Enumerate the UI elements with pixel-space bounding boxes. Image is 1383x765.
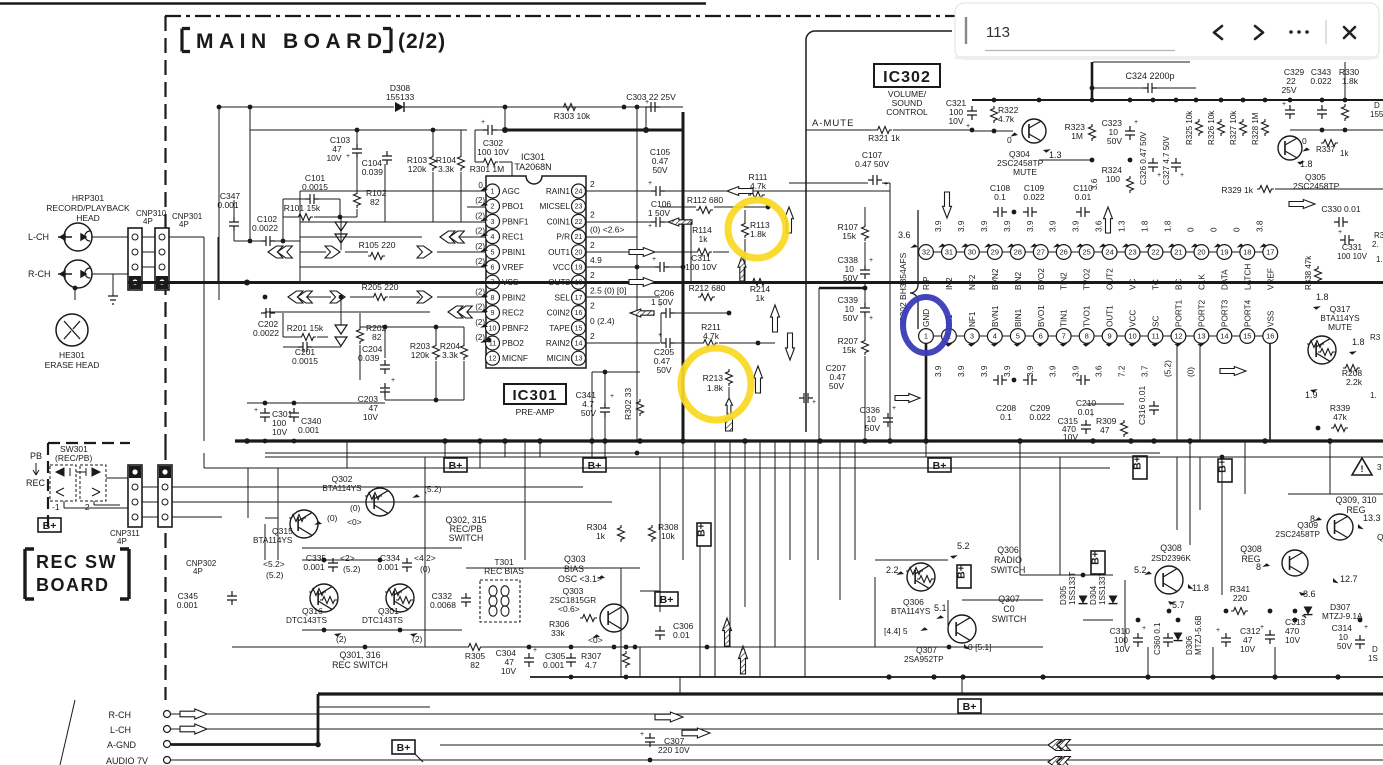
svg-text:220 10V: 220 10V [658, 745, 690, 755]
svg-text:24: 24 [1105, 248, 1113, 257]
svg-text:1.8: 1.8 [1300, 159, 1313, 169]
svg-text:10V: 10V [363, 412, 378, 422]
svg-text:3.6: 3.6 [1095, 220, 1104, 232]
capacitor C338 10 50V [838, 255, 873, 283]
arrow right bottom center 2 [682, 728, 710, 738]
svg-text:120k: 120k [408, 164, 427, 174]
wire thick rail into IC302 bus [505, 129, 683, 132]
wire IC302 top row link [979, 251, 987, 253]
svg-text:3.3k: 3.3k [438, 164, 455, 174]
diode D307 MTZJ-9.1A zener [1302, 602, 1363, 621]
capacitor C315 470 10V [1058, 412, 1094, 442]
svg-text:R329 1k: R329 1k [1221, 185, 1253, 195]
pin 15 IC302 PORT4 [1240, 299, 1255, 343]
svg-text:6: 6 [1039, 332, 1043, 341]
arrow up hatched 1 [723, 618, 732, 646]
transistor Q307 2SA952TP C0 SWITCH [884, 594, 1026, 664]
svg-text:4.7: 4.7 [585, 660, 597, 670]
svg-text:Q316: Q316 [302, 606, 323, 616]
svg-text:3: 3 [1377, 463, 1382, 472]
diode D304 1SS133T [1089, 572, 1118, 605]
capacitor C313 470 10V [1260, 617, 1306, 645]
svg-text:MTZJ-5.6B: MTZJ-5.6B [1194, 615, 1203, 655]
wires C304/C305/R307 [528, 647, 530, 653]
svg-text:155133: 155133 [386, 92, 415, 102]
svg-text:82: 82 [372, 332, 382, 342]
svg-text:AUDIO 7V: AUDIO 7V [106, 756, 148, 765]
svg-text:SC: SC [1152, 316, 1161, 327]
svg-text:R205 220: R205 220 [362, 282, 399, 292]
small arrow R213 bottom [726, 398, 733, 414]
svg-text:2.: 2. [1372, 240, 1379, 249]
svg-text:R213: R213 [703, 373, 724, 383]
pin 4 IC302 BVN1 [980, 305, 1002, 377]
wire IC302 top row link [1117, 251, 1125, 253]
svg-text:0.0022: 0.0022 [252, 223, 278, 233]
svg-text:R328 1M: R328 1M [1251, 112, 1260, 145]
svg-text:Q315: Q315 [272, 526, 293, 536]
svg-text:IN2: IN2 [945, 277, 954, 290]
capacitor C203 47 10V [358, 377, 395, 422]
svg-text:D305: D305 [1059, 585, 1068, 605]
svg-text:VREF: VREF [1266, 268, 1275, 290]
svg-text:BVN2: BVN2 [991, 268, 1000, 290]
capacitor C108 0.1 [990, 183, 1011, 217]
svg-text:1.: 1. [1376, 255, 1383, 264]
svg-text:14: 14 [575, 341, 583, 348]
pin 21 IC301 P/R [556, 230, 585, 244]
svg-text:26: 26 [1060, 248, 1068, 257]
svg-text:DTC143TS: DTC143TS [286, 616, 327, 625]
svg-text:A-MUTE: A-MUTE [812, 118, 854, 129]
svg-text:2: 2 [590, 331, 595, 341]
svg-text:B+: B+ [963, 701, 977, 713]
svg-text:1.9: 1.9 [1305, 390, 1318, 400]
svg-text:4: 4 [491, 234, 495, 241]
resistor R323 1M [1065, 122, 1096, 141]
svg-text:R325 10k: R325 10k [1185, 110, 1194, 145]
svg-text:50V: 50V [843, 273, 858, 283]
svg-text:1.8k: 1.8k [707, 383, 724, 393]
transistor Q301 DTC143TS [362, 584, 414, 625]
wire IC302 top row link [1232, 251, 1240, 253]
resistor R328 1M [1251, 112, 1269, 145]
svg-text:50V: 50V [1107, 136, 1122, 146]
capacitor C329 22 25V [1281, 67, 1304, 119]
pin 24 IC301 RAIN1 [546, 184, 586, 198]
diode D306 MTZJ-5.6B zener [1174, 615, 1204, 655]
svg-text:155: 155 [1370, 110, 1383, 119]
svg-text:100 10V: 100 10V [685, 262, 717, 272]
transistor Q310 [1310, 513, 1383, 542]
svg-text:3.9: 3.9 [934, 365, 943, 377]
svg-text:B+: B+ [397, 742, 411, 754]
resistor R307 4.7 [581, 651, 630, 670]
svg-text:Q303: Q303 [563, 586, 584, 596]
svg-text:+: + [254, 407, 258, 414]
resistor R327 10k [1229, 110, 1247, 145]
svg-text:C324 2200p: C324 2200p [1125, 71, 1174, 81]
pin 2 IC301 PBO1 [486, 199, 525, 213]
svg-text:(0): (0) [1186, 367, 1195, 377]
resistor R325 10k [1185, 110, 1203, 145]
arrow up to C107 wire [785, 207, 794, 233]
transistor Q303 2SC1815GR [549, 586, 628, 645]
arrow up x775 [771, 305, 780, 332]
svg-text:4P: 4P [143, 217, 153, 226]
capacitor C302 100 10V [477, 119, 509, 157]
svg-text:4.7k: 4.7k [998, 114, 1015, 124]
pin 19 IC302 DATA [1209, 227, 1231, 290]
svg-text:32: 32 [922, 248, 930, 257]
pin 7 IC302 TIN1 [1049, 309, 1071, 377]
wire IC302 top row link [1163, 251, 1171, 253]
svg-text:2: 2 [590, 240, 595, 250]
svg-text:1 50V: 1 50V [648, 208, 671, 218]
warning triangle [1352, 458, 1382, 475]
svg-text:2SA952TP: 2SA952TP [904, 655, 944, 664]
svg-text:+: + [645, 99, 649, 106]
pin 1 IC302 GND [919, 309, 934, 344]
capacitor C103 47 10V [326, 135, 362, 163]
capacitor C307 220 10V [640, 731, 690, 755]
svg-text:D: D [1374, 101, 1380, 110]
svg-text:VREF: VREF [502, 263, 524, 272]
wire pin1 GND down [925, 343, 928, 441]
svg-text:B+: B+ [660, 594, 674, 606]
wire thick R-CH bus y282 [128, 281, 1383, 284]
wire top border [0, 2, 706, 5]
capacitor C205 0.47 50V [654, 332, 675, 375]
svg-text:0.001: 0.001 [303, 562, 325, 572]
capacitor C311 100 10V [652, 253, 717, 272]
resistor R111 4.7k [748, 172, 768, 199]
svg-text:REC SWITCH: REC SWITCH [332, 660, 388, 670]
wires C108-C110 stubs [992, 212, 994, 244]
arrow right at C336 [895, 394, 920, 403]
B+ box bottom right [958, 699, 981, 713]
svg-text:OSC <3.1>: OSC <3.1> [558, 574, 602, 584]
wire L-CH bottom [207, 728, 1383, 730]
svg-text:11: 11 [1152, 332, 1160, 341]
capacitor C321 100 10V [946, 98, 977, 130]
resistor R101 15k [284, 203, 321, 221]
svg-text:RAIN1: RAIN1 [546, 187, 571, 196]
wire IC302 top row link [933, 251, 941, 253]
ground near CNP310 [108, 274, 118, 304]
B+ box vertical x1218 [1218, 459, 1232, 482]
svg-text:1.8k: 1.8k [750, 229, 767, 239]
svg-text:29: 29 [991, 248, 999, 257]
connector CNP310 4P [128, 209, 167, 290]
wire IC302 bottom row link [1186, 335, 1194, 337]
wires ch2 network [282, 313, 284, 337]
resistor R326 10k [1207, 110, 1225, 145]
wire top-right verticals from search bar [1091, 62, 1094, 100]
L-CH head coil [28, 223, 92, 251]
pin 21 IC302 BC [1163, 220, 1185, 290]
svg-text:19: 19 [575, 265, 583, 272]
pin 32 IC302 RIP [919, 245, 934, 290]
svg-text:HRP301: HRP301 [72, 193, 104, 203]
svg-text:10V: 10V [326, 153, 341, 163]
svg-text:0.022: 0.022 [1023, 192, 1045, 202]
svg-text:1k: 1k [596, 531, 606, 541]
wire IC302 bottom row link [1140, 335, 1148, 337]
svg-text:15k: 15k [842, 231, 856, 241]
svg-text:Q309, 310: Q309, 310 [1335, 495, 1376, 505]
arrow up hatched 2 [739, 646, 748, 674]
capacitor C303 22 25V [626, 92, 676, 112]
svg-text:C330 0.01: C330 0.01 [1321, 204, 1360, 214]
arrow up right of R213 [754, 366, 763, 393]
resistor R201 15k [287, 323, 324, 341]
svg-text:PORT4: PORT4 [1243, 299, 1252, 327]
capacitor C336 10 50V [860, 405, 896, 433]
IC302 outer rounded border [806, 31, 952, 432]
wire IC302 top row link [1025, 251, 1033, 253]
resistor R202 82 [357, 323, 387, 344]
wire IC302 bottom row link [1163, 335, 1171, 337]
label IC301 PRE-AMP [504, 384, 566, 417]
svg-text:1.8: 1.8 [1141, 220, 1150, 232]
svg-text:R326 10k: R326 10k [1207, 110, 1216, 145]
svg-text:16: 16 [1266, 332, 1274, 341]
capacitor C360 0.1 [1153, 622, 1173, 655]
svg-text:Q302: Q302 [332, 474, 353, 484]
svg-text:+: + [1282, 101, 1286, 108]
label Q301 316 REC SWITCH [332, 650, 388, 670]
svg-text:SEL: SEL [555, 293, 571, 302]
wire IC302 bottom row link [979, 335, 987, 337]
svg-text:50V: 50V [829, 381, 844, 391]
pin 24 IC302 OUT2 [1095, 220, 1117, 290]
svg-text:Q307: Q307 [998, 594, 1020, 604]
svg-text:10V: 10V [272, 427, 287, 437]
resistor R211 4.7k [701, 322, 721, 347]
pin 10 IC301 PBNF2 [486, 321, 529, 335]
svg-text:15: 15 [575, 325, 583, 332]
chevron arrow to pin4 REC1 [440, 231, 455, 243]
wire IC302 top row link [1002, 251, 1010, 253]
wire pin21 net jog [586, 236, 637, 238]
resistor R114 1k [692, 225, 712, 256]
svg-text:8: 8 [1085, 332, 1089, 341]
pin 17 IC302 VREF [1255, 220, 1277, 290]
svg-text:47: 47 [1100, 425, 1110, 435]
svg-text:IC302: IC302 [883, 69, 931, 86]
svg-text:100 10V: 100 10V [1337, 252, 1367, 261]
wire L-CH line [169, 236, 204, 238]
wires R107/C338/C339/R207 column [864, 207, 866, 224]
svg-text:0.1: 0.1 [994, 192, 1006, 202]
resistor R214 1k [750, 279, 771, 304]
svg-text:+: + [640, 731, 644, 738]
B+ rotated x1097 [1091, 551, 1105, 574]
svg-text:VCC: VCC [553, 263, 570, 272]
svg-text:+: + [1364, 624, 1368, 631]
svg-text:REC: REC [26, 478, 46, 488]
svg-text:Q317: Q317 [1330, 304, 1351, 314]
wire pin19 VCC [586, 266, 655, 268]
svg-text:RAIN2: RAIN2 [546, 339, 571, 348]
svg-text:4: 4 [993, 332, 997, 341]
svg-text:0 (2.4): 0 (2.4) [590, 316, 615, 326]
resistor R113 1.8k [742, 220, 770, 239]
svg-text:0.0068: 0.0068 [430, 600, 456, 610]
svg-text:+: + [1090, 412, 1094, 419]
svg-text:3.9: 3.9 [1026, 365, 1035, 377]
pin 4 IC301 REC1 [486, 230, 525, 244]
svg-text:REC SW: REC SW [36, 552, 117, 572]
svg-text:120k: 120k [411, 350, 430, 360]
svg-text:<0>: <0> [347, 517, 362, 527]
svg-text:0.039: 0.039 [358, 353, 380, 363]
transformer T301 REC BIAS [480, 557, 524, 622]
capacitor C105 0.47 50V [648, 147, 670, 196]
resistor R207 15k [838, 336, 869, 355]
svg-text:0.01: 0.01 [673, 630, 690, 640]
arrow pin18 OUT2 [629, 278, 655, 287]
svg-text:C0IN1: C0IN1 [547, 217, 571, 226]
terminal A-GND [107, 740, 171, 750]
IC302 body bracket [910, 210, 918, 329]
svg-text:BTA114YS: BTA114YS [891, 607, 931, 616]
connector CNP302 4P [158, 465, 217, 576]
connector CNP301 4P [155, 212, 203, 290]
svg-text:MICNF: MICNF [502, 354, 528, 363]
svg-text:+: + [892, 405, 896, 412]
svg-text:VSS: VSS [1266, 310, 1275, 327]
svg-text:10V: 10V [501, 666, 516, 676]
svg-text:25V: 25V [1281, 85, 1296, 95]
svg-text:NF1: NF1 [968, 311, 977, 327]
capacitor C339 10 50V [838, 295, 873, 323]
svg-text:27: 27 [1037, 248, 1045, 257]
pin 14 IC301 RAIN2 [546, 336, 586, 350]
svg-text:3.9: 3.9 [1072, 365, 1081, 377]
svg-text:PBNF1: PBNF1 [502, 217, 529, 226]
svg-text:BC: BC [1174, 279, 1183, 290]
svg-text:+: + [1338, 229, 1342, 236]
svg-text:23: 23 [1128, 248, 1136, 257]
svg-text:R3: R3 [1370, 333, 1381, 342]
corner bracket bottom left [60, 700, 75, 765]
pin 5 IC301 PBIN1 [486, 245, 527, 259]
resistor R341 220 [1230, 584, 1251, 615]
pin 19 IC301 VCC [553, 260, 586, 274]
svg-text:PBNF2: PBNF2 [502, 324, 529, 333]
arrow up at pin24 [1104, 207, 1113, 233]
pin 31 IC302 IN2 [934, 220, 956, 290]
svg-text:R201 15k: R201 15k [287, 323, 324, 333]
wires input network ch1 [249, 107, 251, 241]
pin 23 IC302 VC [1118, 220, 1140, 290]
svg-text:+: + [812, 399, 816, 406]
svg-text:1.: 1. [1370, 391, 1377, 400]
svg-text:3.9: 3.9 [1049, 365, 1058, 377]
svg-text:6: 6 [491, 265, 495, 272]
wire A-GND thick [171, 743, 318, 746]
svg-text:PBO2: PBO2 [502, 339, 524, 348]
svg-text:20: 20 [575, 249, 583, 256]
svg-text:3.9: 3.9 [934, 220, 943, 232]
svg-text:1.8: 1.8 [1163, 220, 1172, 232]
resistor R105 220 [359, 240, 396, 260]
diode D308 155133 [386, 83, 415, 112]
svg-text:2SC2458TP: 2SC2458TP [1275, 530, 1320, 539]
svg-text:15: 15 [1243, 332, 1251, 341]
svg-text:50V: 50V [865, 423, 880, 433]
svg-text:5.2: 5.2 [957, 541, 970, 551]
svg-text:1SS133T: 1SS133T [1068, 572, 1077, 605]
B+ feed REC SW board [38, 518, 61, 532]
transistor Q315 BTA114YS [253, 503, 362, 545]
transistor Q316 DTC143TS [286, 584, 338, 625]
transistor Q309 2SC2458TP [1256, 520, 1358, 599]
capacitor C323 10 50V [1102, 118, 1138, 146]
pin 11 IC301 PBO2 [486, 336, 525, 350]
op-amp IC301 TA2068N body [486, 152, 586, 368]
wires SW301 to connectors [63, 501, 65, 508]
label Q303 BIAS OSC [558, 554, 606, 584]
svg-text:D307: D307 [1330, 602, 1351, 612]
capacitor C330 0.01 [1321, 204, 1360, 227]
svg-text:TVO1: TVO1 [1083, 305, 1092, 327]
wire IC302 top row link [1094, 251, 1102, 253]
svg-text:0.022: 0.022 [1029, 412, 1051, 422]
capacitor C314 10 50V [1332, 623, 1368, 651]
svg-text:SWITCH: SWITCH [992, 614, 1027, 624]
wire IC302 top row link [1186, 251, 1194, 253]
capacitor C210 0.01 [1076, 375, 1097, 417]
svg-text:+: + [533, 647, 537, 654]
capacitor C312 47 10V [1216, 626, 1261, 654]
arrow down x790 [786, 333, 795, 360]
capacitor C305 0.001 [543, 651, 576, 670]
svg-text:16: 16 [575, 310, 583, 317]
wires bottom-left mesh [231, 457, 233, 591]
chevron arrows PB line ch1 [268, 246, 283, 258]
svg-text:B+: B+ [43, 520, 57, 532]
svg-text:D: D [1372, 645, 1378, 654]
svg-text:+: + [884, 181, 888, 188]
svg-text:(5.2): (5.2) [266, 570, 284, 580]
capacitor C304 47 10V [496, 647, 537, 676]
svg-text:PORT3: PORT3 [1220, 299, 1229, 327]
svg-text:19: 19 [1220, 248, 1228, 257]
svg-text:0: 0 [1186, 227, 1195, 232]
wire secondary rail y453 [265, 452, 1160, 454]
svg-text:HEAD: HEAD [76, 213, 100, 223]
resistor R302 33 [623, 388, 644, 420]
B+ box 1 [444, 458, 467, 472]
svg-text:OUT1: OUT1 [1106, 305, 1115, 327]
pin 29 IC302 BVN2 [980, 220, 1002, 290]
svg-text:1 50V: 1 50V [651, 297, 674, 307]
capacitor C345 0.001 [177, 591, 237, 610]
svg-text:14: 14 [1220, 332, 1228, 341]
wires VCC SC pins down [1085, 404, 1087, 421]
capacitor C101 0.0015 [302, 173, 328, 204]
capacitor C332 0.0068 [430, 591, 471, 610]
svg-text:+: + [1134, 119, 1138, 126]
arrow pin20 OUT1 [629, 248, 655, 257]
svg-text:TC: TC [1152, 279, 1161, 290]
svg-text:R105 220: R105 220 [359, 240, 396, 250]
svg-text:+: + [1180, 172, 1184, 179]
wire IC302 top row link [1140, 251, 1148, 253]
